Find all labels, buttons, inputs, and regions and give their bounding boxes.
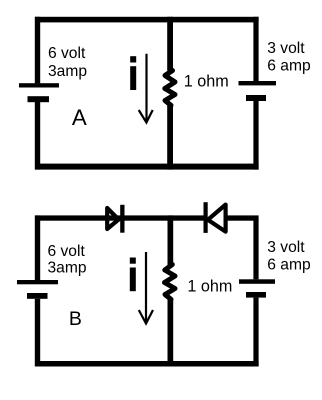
wire: circuit A right lower segment [253, 101, 258, 170]
wire: circuit B top middle segment [124, 215, 204, 220]
svg-text:6 volt: 6 volt [48, 243, 86, 260]
svg-text:1 ohm: 1 ohm [184, 73, 229, 91]
current direction arrow (circuit A) [139, 54, 153, 123]
svg-text:B: B [69, 308, 82, 330]
value label "3 volt 6 amp" (circuit B) [267, 239, 311, 273]
resistor R1 (1 ohm, circuit A) [165, 71, 175, 106]
diode D2 (right, circuit B) [204, 202, 226, 233]
svg-text:3 volt: 3 volt [267, 239, 305, 256]
value label "1 ohm" (circuit B) [187, 278, 232, 296]
value label "3 volt 6 amp" (circuit A) [267, 40, 311, 74]
wire: circuit B top left segment [35, 215, 122, 220]
svg-text:1 ohm: 1 ohm [187, 278, 232, 296]
resistor R2 (1 ohm, circuit B) [165, 265, 176, 300]
battery V2 (3 volt, right, circuit A) [239, 81, 277, 101]
svg-text:6 volt: 6 volt [48, 45, 86, 62]
battery V4 (3 volt, right, circuit B) [239, 279, 275, 297]
value label "6 volt 3amp" (circuit B) [48, 243, 87, 277]
svg-text:3 volt: 3 volt [267, 40, 305, 57]
wire: circuit A top [35, 17, 259, 23]
svg-text:6 amp: 6 amp [267, 57, 311, 74]
value label "1 ohm" (circuit A) [184, 73, 229, 91]
value label "6 volt 3amp" (circuit A) [48, 45, 87, 80]
wire: circuit B middle lower segment [168, 299, 174, 367]
node label A [72, 105, 87, 130]
diode D1 (left, circuit B) [107, 205, 124, 233]
battery V1 (6 volt, left, circuit A) [19, 83, 59, 102]
wire: circuit A left upper segment [35, 17, 40, 84]
current direction arrow (circuit B) [139, 252, 153, 324]
wire: circuit B middle upper segment [168, 215, 174, 265]
wire: circuit A left lower segment [35, 102, 40, 170]
battery V3 (6 volt, left, circuit B) [17, 280, 58, 299]
wire: circuit B left upper segment [35, 215, 40, 280]
node label B [69, 308, 82, 330]
wire: circuit B bottom [35, 361, 259, 367]
svg-text:A: A [72, 105, 87, 130]
current label i (circuit B) [130, 258, 136, 292]
wire: circuit B right upper segment [253, 219, 258, 279]
svg-text:3amp: 3amp [48, 260, 87, 277]
wire: circuit A right upper segment [253, 17, 258, 82]
wire: circuit B right lower segment [253, 298, 258, 367]
wire: circuit B left lower segment [35, 299, 40, 367]
wire: circuit A middle lower segment [167, 105, 173, 170]
svg-text:3amp: 3amp [48, 63, 87, 80]
current label i (circuit A) [130, 56, 136, 90]
wire: circuit B top right segment [226, 215, 259, 220]
svg-text:6 amp: 6 amp [267, 256, 311, 273]
wire: circuit A middle upper segment [167, 17, 173, 71]
wire: circuit A bottom [35, 164, 259, 170]
